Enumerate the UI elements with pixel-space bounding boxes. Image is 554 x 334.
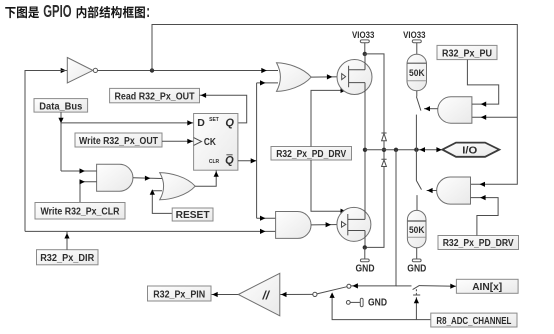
wire top feedback rail <box>152 25 517 187</box>
inverter U1 <box>67 58 97 84</box>
wire drain rail PMOS to NMOS <box>364 83 366 220</box>
transistor Q2 nmos <box>337 207 371 241</box>
wire switch to input buffer <box>280 292 313 297</box>
wire Write OUT to CK <box>162 139 194 144</box>
node pad branch pull <box>414 148 418 152</box>
title text <box>5 3 150 22</box>
svg-text:SET: SET <box>209 117 219 123</box>
node pad branch input <box>394 148 398 152</box>
and-gate G6 pull-down enable <box>437 177 471 204</box>
wire inverter input arrow <box>60 68 67 73</box>
wire pad drop to input switch <box>351 150 396 289</box>
box Write R32_Px_OUT <box>75 133 162 147</box>
wire S3 control from ADC <box>330 292 431 319</box>
wire PMOS source to VIO33 <box>364 54 366 70</box>
wire pad line to IO <box>365 147 442 152</box>
svg-text:Q: Q <box>225 117 234 129</box>
wire pull-up contact to pad <box>415 115 417 150</box>
box Read R32_Px_OUT <box>110 88 200 102</box>
wire pad to ADC switch <box>396 285 412 287</box>
svg-text:R32_Px_PU: R32_Px_PU <box>442 47 492 59</box>
svg-text:50K: 50K <box>409 225 425 236</box>
node VIO33 junction <box>363 52 367 56</box>
box R32_Px_PD_DRV middle <box>271 147 352 161</box>
wire AND G1 input1 <box>61 168 97 173</box>
wire NMOS source to GND <box>364 231 366 248</box>
wire PD_DRV to PMOS <box>311 88 347 147</box>
box R32_Px_PU <box>437 45 497 59</box>
wire S4 control from ADC <box>414 297 419 319</box>
transistor Q1 pmos <box>337 60 372 95</box>
svg-text:Data_Bus: Data_Bus <box>39 100 82 112</box>
wire AND G1 output to OR G2 <box>133 176 166 181</box>
box AIN[x] <box>456 279 518 293</box>
or-gate G3 pmos-drive <box>277 63 312 92</box>
wire PD_DRV to NMOS <box>311 160 347 214</box>
wire inverter output to OR gate <box>98 68 279 73</box>
svg-text:VIO33: VIO33 <box>352 30 374 41</box>
svg-text:GND: GND <box>368 298 387 309</box>
box RESET <box>172 208 213 221</box>
box R32_Px_DIR <box>37 250 99 265</box>
svg-text:RESET: RESET <box>176 210 210 221</box>
or-gate G2 reset <box>160 173 196 200</box>
wire left DIR rail <box>25 71 61 232</box>
svg-text:R32_Px_PD_DRV: R32_Px_PD_DRV <box>276 148 346 160</box>
wire PD_DRV box to G6 input2 <box>471 195 499 236</box>
svg-text:R32_Px_DIR: R32_Px_DIR <box>40 252 94 264</box>
VIO33 supply right <box>403 30 425 54</box>
flip-flop U2 <box>194 114 238 171</box>
svg-text:CK: CK <box>204 137 217 148</box>
node diode pad junction <box>382 148 386 152</box>
switch S4 analog <box>413 284 457 295</box>
wire Data_Bus down to AND input <box>58 112 63 171</box>
svg-text:50K: 50K <box>409 68 425 79</box>
svg-text:VIO33: VIO33 <box>403 30 425 41</box>
wire G6 output to switch S2 <box>427 188 437 193</box>
wire VIO33 to diode column <box>365 54 384 133</box>
box Write R32_Px_CLR <box>35 203 125 220</box>
wire PU box to G5 input1 <box>467 60 498 107</box>
svg-text:R32_Px_PD_DRV: R32_Px_PD_DRV <box>443 237 514 249</box>
wire RESET to OR G2 <box>150 189 173 213</box>
svg-text:Write R32_Px_CLR: Write R32_Px_CLR <box>41 206 120 218</box>
box R8_ADC_CHANNEL <box>431 313 517 327</box>
svg-text:AIN[x]: AIN[x] <box>472 281 502 293</box>
wire buffer to PIN box <box>212 292 239 297</box>
box R32_Px_PD_DRV bottom <box>438 236 519 250</box>
node GND junction <box>363 245 367 249</box>
diode D2 lower ESD <box>367 150 387 248</box>
wire rail tap to pull-up AND <box>472 115 517 120</box>
ground GND right <box>407 248 426 275</box>
wire DIR box stem <box>64 231 69 249</box>
svg-text:Write R32_Px_OUT: Write R32_Px_OUT <box>79 135 158 147</box>
wire OR G2 output to CLR <box>195 170 219 186</box>
wire G5 output to switch S1 <box>424 106 438 111</box>
svg-text:I/O: I/O <box>462 146 477 157</box>
resistor R2 50K pull-down <box>407 210 426 247</box>
wire DIR line <box>25 229 276 234</box>
ground GND left <box>356 247 375 274</box>
wire Qbar vertical to OR and AND <box>257 80 278 220</box>
switch S1 pull-up <box>416 91 421 111</box>
wire Qbar to vertical <box>238 158 257 163</box>
svg-text:R32_Px_PIN: R32_Px_PIN <box>153 289 205 301</box>
node inverter output junction <box>150 68 154 72</box>
box R32_Px_PIN <box>148 286 212 301</box>
svg-text:GPIO: GPIO <box>43 3 71 22</box>
svg-text:CLR: CLR <box>209 159 220 165</box>
wire AND G1 input2 from Write CLR <box>80 179 97 202</box>
svg-text::: : <box>146 3 150 22</box>
buffer U3 input <box>238 273 279 316</box>
svg-text:Read R32_Px_OUT: Read R32_Px_OUT <box>115 90 195 102</box>
pad I/O hexagon <box>442 143 499 157</box>
diode D1 upper ESD <box>381 133 386 150</box>
svg-text:GND: GND <box>407 263 426 274</box>
svg-text:Q: Q <box>225 155 234 167</box>
svg-text:D: D <box>197 117 205 129</box>
switch S2 pull-down <box>416 150 421 211</box>
wire AND G4 output to NMOS gate <box>311 222 341 227</box>
switch S3 input enable <box>313 284 351 296</box>
node pad junction drain <box>363 148 367 152</box>
svg-text:R8_ADC_CHANNEL: R8_ADC_CHANNEL <box>436 315 511 327</box>
VIO33 supply left <box>352 30 374 54</box>
and-gate G1 write-clear <box>97 164 133 191</box>
ground GND stub <box>346 298 387 309</box>
box Data_Bus <box>34 99 88 113</box>
wire OR G3 output to PMOS gate <box>311 74 342 79</box>
and-gate G5 pull-up enable <box>438 97 472 123</box>
resistor R1 50K pull-up <box>407 54 427 91</box>
wire Q to Read box <box>200 93 247 123</box>
and-gate G4 nmos-drive <box>276 212 311 239</box>
wire D input <box>61 120 194 125</box>
svg-text:GND: GND <box>356 263 375 274</box>
